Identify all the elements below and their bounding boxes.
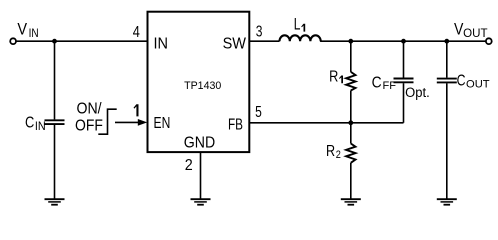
wire COUT bottom bbox=[446, 83, 448, 198]
junction COUT top bbox=[444, 39, 449, 44]
svg-text:2: 2 bbox=[185, 157, 193, 174]
svg-text:C: C bbox=[457, 73, 466, 90]
svg-text:ON/: ON/ bbox=[77, 101, 103, 118]
wire R2 bottom bbox=[350, 163, 352, 199]
svg-text:2: 2 bbox=[336, 149, 341, 161]
capacitor COUT bbox=[437, 78, 457, 80]
wire R2 top bbox=[350, 123, 352, 144]
svg-text:FB: FB bbox=[228, 116, 243, 133]
ground (R2) bbox=[341, 199, 361, 205]
wire EN arrow bbox=[115, 121, 139, 123]
svg-text:V: V bbox=[17, 19, 27, 38]
resistor R1 bbox=[346, 72, 355, 91]
step waveform symbol bbox=[98, 109, 116, 134]
terminal VIN circle bbox=[10, 38, 16, 44]
junction FB bbox=[348, 120, 353, 125]
capacitor CFF bbox=[394, 78, 414, 80]
terminal VOUT circle bbox=[486, 38, 492, 44]
svg-text:C: C bbox=[372, 74, 382, 91]
wire CIN top bbox=[54, 41, 56, 119]
wire COUT top bbox=[446, 41, 448, 77]
svg-text:Opt.: Opt. bbox=[405, 85, 430, 100]
wire CIN bottom bbox=[54, 125, 56, 199]
wire inductor to VOUT bbox=[320, 40, 486, 42]
wire R1 top bbox=[350, 41, 352, 72]
wire VIN to IC IN pin bbox=[16, 40, 147, 42]
capacitor CIN bbox=[45, 119, 65, 121]
svg-text:IN: IN bbox=[29, 26, 39, 40]
svg-text:R: R bbox=[326, 143, 335, 160]
svg-text:IN: IN bbox=[154, 36, 169, 53]
svg-text:FF: FF bbox=[383, 80, 397, 92]
wire IC GND pin bbox=[200, 152, 202, 198]
ground (COUT) bbox=[437, 199, 457, 205]
ground (IC GND) bbox=[191, 199, 211, 205]
wire CFF top bbox=[403, 41, 405, 77]
svg-text:EN: EN bbox=[154, 115, 171, 132]
wire R1 bottom bbox=[350, 91, 352, 123]
wire FB net bbox=[249, 122, 403, 124]
junction R1 top bbox=[348, 39, 353, 44]
svg-text:OFF: OFF bbox=[75, 118, 103, 135]
junction CFF top bbox=[401, 39, 406, 44]
pin number 1 bbox=[134, 104, 139, 116]
ground (CIN) bbox=[45, 199, 65, 205]
svg-text:SW: SW bbox=[223, 36, 247, 53]
svg-text:4: 4 bbox=[133, 24, 140, 41]
svg-text:OUT: OUT bbox=[463, 28, 487, 40]
wire SW to inductor bbox=[249, 40, 279, 42]
resistor R2 bbox=[346, 144, 355, 163]
junction VIN/CIN bbox=[52, 39, 57, 44]
svg-text:5: 5 bbox=[255, 104, 262, 121]
svg-text:3: 3 bbox=[256, 23, 263, 40]
svg-text:GND: GND bbox=[184, 135, 215, 152]
svg-text:IN: IN bbox=[35, 121, 46, 133]
inductor L1 bbox=[280, 35, 321, 41]
svg-text:L: L bbox=[294, 15, 301, 34]
wire CFF bottom riser bbox=[403, 83, 405, 123]
svg-text:TP1430: TP1430 bbox=[184, 80, 221, 92]
op-amp U1 : IC body TP1430 bbox=[148, 12, 250, 152]
svg-text:OUT: OUT bbox=[466, 78, 490, 90]
svg-text:C: C bbox=[25, 115, 34, 132]
svg-text:R: R bbox=[329, 69, 338, 86]
